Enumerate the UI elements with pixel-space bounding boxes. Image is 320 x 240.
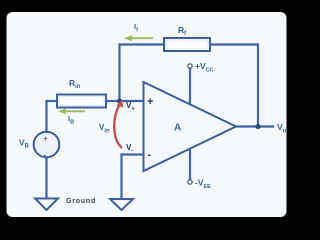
svg-text:A: A xyxy=(174,123,181,134)
resistor Rf xyxy=(164,38,210,51)
differential voltage arrow (red, curved up) xyxy=(114,100,123,149)
wire op-amp minus input horizontal xyxy=(122,153,145,155)
current arrow If (green, pointing left) xyxy=(124,35,153,41)
voltage source VB circle xyxy=(34,132,60,158)
wire feedback left vertical xyxy=(118,43,120,101)
wire feedback top-left segment xyxy=(119,43,166,45)
wire feedback top-right segment xyxy=(209,43,259,45)
svg-text:+: + xyxy=(147,96,153,108)
svg-text:Ground: Ground xyxy=(66,198,96,205)
wire output xyxy=(235,125,274,127)
wire source top vertical xyxy=(45,100,47,133)
ground symbol right xyxy=(110,199,133,210)
resistor Rin xyxy=(57,95,106,108)
node output junction dot xyxy=(255,124,260,129)
supply node -Vee xyxy=(188,180,192,184)
wire source bottom vertical to ground xyxy=(45,156,47,200)
svg-text:-: - xyxy=(148,149,152,161)
wire minus input vertical to ground xyxy=(120,153,122,200)
current arrow IB (green, pointing left) xyxy=(58,108,85,114)
op-amp U1 triangle xyxy=(144,82,237,171)
wire source to Rin xyxy=(47,100,59,102)
wire -Vee supply vertical xyxy=(189,148,191,180)
node A junction dot at feedback/input xyxy=(117,98,122,103)
wire input from Rin to op-amp + input xyxy=(105,100,144,102)
wire feedback right vertical xyxy=(257,43,259,126)
wire +Vcc supply vertical xyxy=(189,68,191,105)
schematic panel background xyxy=(7,12,287,217)
svg-text:+: + xyxy=(44,136,48,143)
ground symbol left xyxy=(35,199,58,211)
supply node +Vcc xyxy=(188,64,192,68)
